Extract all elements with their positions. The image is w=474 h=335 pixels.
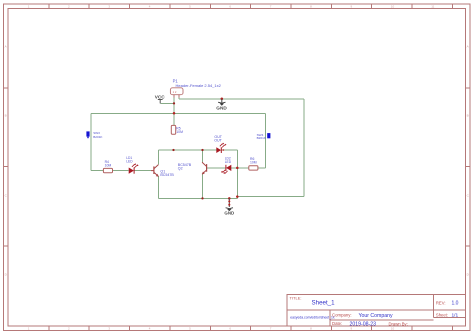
- svg-text:6: 6: [229, 5, 231, 9]
- LED LD1: [126, 156, 138, 174]
- ground bottom GND: [224, 198, 234, 215]
- wire Q1 collector to node: [157, 150, 159, 164]
- svg-text:VCC: VCC: [155, 95, 166, 100]
- wire R4 to LED1: [113, 170, 129, 172]
- transistor Q1: [151, 165, 159, 177]
- svg-text:B: B: [5, 114, 7, 118]
- ground top GND: [216, 99, 227, 111]
- wire P1 pin1 to VCC bus: [173, 98, 175, 126]
- node bottom right junction: [236, 195, 239, 198]
- svg-text:1/1: 1/1: [452, 313, 459, 319]
- svg-text:B201K: B201K: [257, 136, 267, 140]
- svg-text:D: D: [5, 273, 8, 277]
- svg-text:C: C: [467, 194, 470, 198]
- wire right GND return: [237, 99, 304, 197]
- svg-text:2: 2: [68, 5, 70, 9]
- resistor R5: [171, 125, 183, 134]
- svg-text:LED: LED: [225, 160, 232, 164]
- wire VCC feed: [160, 102, 174, 104]
- svg-text:10: 10: [391, 5, 395, 9]
- svg-text:11: 11: [431, 5, 434, 9]
- switch SW3: [86, 131, 103, 139]
- resistor R4: [103, 160, 112, 173]
- wire LED1 to Q1 base: [134, 170, 151, 172]
- svg-text:Sheet_1: Sheet_1: [312, 299, 336, 306]
- net flag OUT: [214, 135, 223, 142]
- wire Q2 collector-emitter column: [202, 150, 204, 198]
- title block: [287, 295, 465, 327]
- wire inner right edge: [236, 150, 238, 197]
- power flag VCC: [155, 95, 166, 104]
- node bus junction: [173, 112, 176, 115]
- node top GND junction: [221, 98, 224, 101]
- svg-text:TITLE:: TITLE:: [290, 295, 302, 300]
- svg-text:Header-Female 2.54_1x2: Header-Female 2.54_1x2: [176, 83, 222, 88]
- svg-text:BC547B: BC547B: [160, 173, 174, 177]
- svg-text:10: 10: [391, 327, 395, 331]
- svg-text:A: A: [5, 45, 7, 49]
- svg-text:9: 9: [351, 5, 353, 9]
- svg-text:easyeda.com/editor/sheet_1x: easyeda.com/editor/sheet_1x: [290, 316, 335, 320]
- node R5 top-edge junction: [172, 149, 174, 151]
- svg-text:REV:: REV:: [436, 301, 446, 306]
- svg-text:B201K: B201K: [93, 135, 103, 139]
- node Q2 emitter junction: [201, 197, 203, 199]
- svg-text:OUT: OUT: [214, 138, 222, 142]
- svg-text:10M: 10M: [176, 130, 183, 134]
- node LED2 right junction: [236, 167, 239, 170]
- wire VCC bus: [91, 112, 266, 114]
- wire R6 to SW4 branch: [258, 113, 266, 168]
- svg-text:3: 3: [108, 5, 110, 9]
- svg-text:8: 8: [310, 5, 312, 9]
- node Q2 collector junction: [201, 149, 203, 151]
- wire emitter ground rail: [158, 197, 237, 199]
- svg-text:7: 7: [270, 5, 272, 9]
- svg-text:1: 1: [28, 5, 30, 9]
- svg-text:Drawn By:: Drawn By:: [389, 321, 408, 326]
- node VCC junction: [173, 102, 175, 104]
- svg-text:10M: 10M: [105, 163, 112, 167]
- wire left branch through SW3: [91, 113, 104, 170]
- svg-text:P1: P1: [173, 78, 179, 83]
- wire top edge collector bus: [158, 149, 237, 151]
- switch SW4: [257, 133, 271, 140]
- wire Q2 base to LED2: [207, 167, 227, 169]
- wire LED2 to R6: [231, 167, 249, 169]
- svg-text:Date:: Date:: [332, 321, 342, 326]
- connector P1: [170, 88, 183, 98]
- svg-text:GND: GND: [224, 211, 234, 216]
- svg-text:D: D: [467, 273, 470, 277]
- svg-text:C: C: [5, 194, 8, 198]
- resistor R6: [249, 157, 258, 170]
- node GND junction: [228, 197, 231, 200]
- svg-text:5: 5: [189, 5, 191, 9]
- svg-text:2019-08-23: 2019-08-23: [350, 321, 377, 327]
- svg-text:Company:: Company:: [332, 313, 352, 318]
- svg-text:4: 4: [149, 5, 151, 9]
- svg-text:Your Company: Your Company: [359, 313, 394, 319]
- svg-text:1.0: 1.0: [452, 301, 459, 307]
- svg-text:A: A: [467, 45, 469, 49]
- svg-text:B: B: [467, 114, 469, 118]
- svg-text:Sheet:: Sheet:: [436, 313, 448, 318]
- svg-text:Q2: Q2: [178, 166, 183, 170]
- svg-text:SW3: SW3: [93, 131, 100, 135]
- LED LD2: [221, 157, 232, 174]
- wire P1 pin2 to GND rail: [179, 98, 304, 99]
- svg-text:10M: 10M: [250, 161, 257, 165]
- transistor Q2: [202, 162, 207, 174]
- svg-text:GND: GND: [216, 106, 227, 111]
- wire Q1 emitter to ground rail: [157, 176, 159, 198]
- LED D3 output: [216, 143, 226, 153]
- svg-text:LED: LED: [126, 159, 133, 163]
